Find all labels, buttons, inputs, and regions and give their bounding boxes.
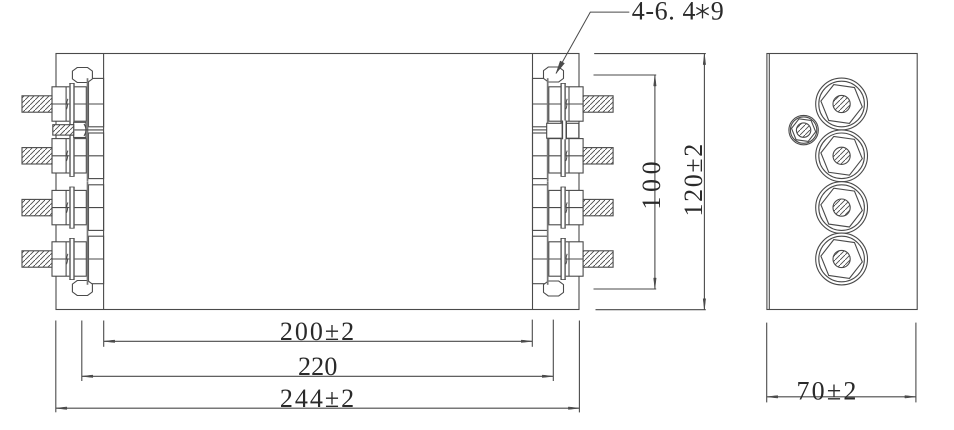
mounting hole top-right xyxy=(544,67,564,82)
terminal boss right row 3 xyxy=(533,185,548,231)
extension line 220 left xyxy=(81,321,83,382)
left terminal stud row 3 (hatched) xyxy=(22,199,52,215)
terminal boss right row 4 xyxy=(533,236,548,284)
dimension line 244±2 xyxy=(56,407,580,409)
dimension line 100 xyxy=(654,75,656,289)
left terminal assembly row 1 (nut, spring washer, flat washer, bushing) xyxy=(52,78,104,130)
left terminal assembly row 3 (nut, spring washer, flat washer, bushing) xyxy=(52,182,104,234)
mounting hole bottom-right xyxy=(544,281,564,296)
right terminal stud row 1 (hatched) xyxy=(583,96,613,112)
svg-text:220: 220 xyxy=(298,352,338,381)
svg-text:244±2: 244±2 xyxy=(280,384,356,413)
svg-text:9: 9 xyxy=(711,0,724,26)
right terminal assembly row 3 (bushing, washers, nut) xyxy=(533,182,584,234)
arrow 244 left xyxy=(56,407,67,410)
terminal boss left row 2 xyxy=(89,133,104,179)
extension line 200 right xyxy=(531,320,533,347)
arrow 200 right xyxy=(521,340,532,343)
ground lug clip left xyxy=(84,124,86,136)
leader line to mounting hole xyxy=(556,12,629,73)
arrow 70 left xyxy=(767,396,778,399)
dimension line 200±2 xyxy=(104,340,533,342)
right terminal stud row 4 (hatched) xyxy=(583,251,613,267)
dimension line 220 xyxy=(82,375,554,377)
extension line 200 left xyxy=(103,321,105,347)
terminal boss left row 4 xyxy=(89,236,104,284)
ground stud left (hatched) xyxy=(53,125,74,135)
terminal boss right row 1 xyxy=(533,78,548,126)
svg-text:120±2: 120±2 xyxy=(679,142,708,216)
extension line 120 bottom xyxy=(596,309,706,311)
side view terminal nut 4 xyxy=(816,233,868,285)
left terminal stud row 1 (hatched) xyxy=(22,96,52,112)
arrow 100 bottom xyxy=(654,278,657,289)
extension line 70 left xyxy=(766,323,768,403)
svg-text:70±2: 70±2 xyxy=(796,376,858,405)
arrow 220 left xyxy=(82,375,93,378)
terminal boss right row 2 xyxy=(533,133,548,179)
right flange divider line xyxy=(532,54,534,310)
right terminal stud row 2 (hatched) xyxy=(583,148,613,164)
extension line 100 bottom xyxy=(594,288,657,290)
extension line 244 left xyxy=(55,321,57,413)
ground row centerline left xyxy=(75,129,104,131)
extension line 120 top xyxy=(594,53,706,55)
arrow 120 top xyxy=(703,54,706,65)
extension line 220 right xyxy=(552,320,554,381)
svg-text:4-6. 4: 4-6. 4 xyxy=(632,0,696,26)
left terminal stud row 2 (hatched) xyxy=(22,148,52,164)
right terminal assembly row 1 (bushing, washers, nut) xyxy=(533,78,584,130)
side view terminal nut 1 xyxy=(816,78,868,130)
terminal boss left row 3 xyxy=(89,185,104,231)
mounting hole top-left xyxy=(72,68,92,83)
side view terminal nut 2 xyxy=(816,130,868,182)
arrow 100 top xyxy=(654,75,657,86)
left terminal assembly row 4 (nut, spring washer, flat washer, bushing) xyxy=(52,233,104,285)
ground washer right xyxy=(562,121,567,140)
ground row centerline right xyxy=(533,129,547,131)
dimension line 70±2 xyxy=(767,396,916,398)
side view: body outline xyxy=(767,54,917,310)
extension line 100 top xyxy=(594,74,657,76)
arrow 70 right xyxy=(905,396,916,399)
arrow 244 right xyxy=(568,407,579,410)
leader arrowhead xyxy=(556,61,564,74)
side view ground nut xyxy=(789,115,818,144)
arrow 120 bottom xyxy=(703,299,706,310)
side view terminal nut 3 xyxy=(816,182,868,234)
hole callout asterisk xyxy=(696,4,708,18)
svg-text:200±2: 200±2 xyxy=(280,317,356,346)
extension line 70 right xyxy=(915,323,917,403)
right terminal assembly row 4 (bushing, washers, nut) xyxy=(533,233,584,285)
ground lug block left xyxy=(74,122,86,137)
front view: filter body outline xyxy=(56,54,579,310)
mounting hole bottom-left xyxy=(72,281,92,296)
arrow 220 right xyxy=(542,375,553,378)
left terminal stud row 4 (hatched) xyxy=(22,251,52,267)
left flange divider line xyxy=(103,54,105,310)
terminal boss left row 1 xyxy=(89,78,104,126)
right terminal assembly row 2 (bushing, washers, nut) xyxy=(533,130,584,182)
dimension line 120±2 xyxy=(703,54,705,310)
side view left edge inner line xyxy=(768,54,770,310)
svg-text:100: 100 xyxy=(637,157,666,210)
ground lug block right xyxy=(547,123,579,138)
extension line 244 right xyxy=(578,321,580,413)
arrow 200 left xyxy=(104,340,115,343)
left terminal assembly row 2 (nut, spring washer, flat washer, bushing) xyxy=(52,130,104,182)
right terminal stud row 3 (hatched) xyxy=(583,199,613,215)
